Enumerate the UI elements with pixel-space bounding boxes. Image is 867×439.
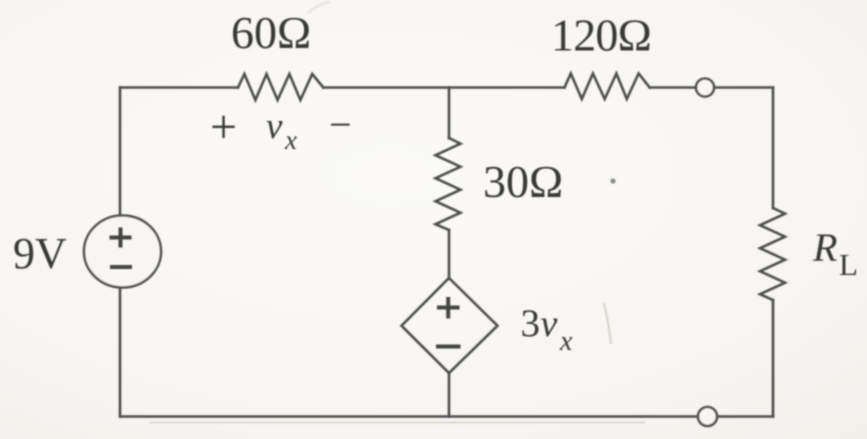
wire: 120-ohm to terminal a [650, 86, 696, 89]
scan artifact: faint wisp at top [308, 2, 330, 13]
svg-text:30Ω: 30Ω [483, 156, 563, 207]
svg-text:3: 3 [521, 302, 541, 345]
svg-text:+: + [210, 101, 237, 154]
svg-text:x: x [284, 125, 297, 155]
svg-text:v: v [541, 303, 558, 345]
scan artifact: faint streak right of 3vx label [604, 303, 611, 344]
wire: left vertical (top segment, from top-left corner to source) [119, 88, 122, 216]
svg-text:v: v [266, 106, 283, 147]
wire: middle branch from top node down to 30-ohm [448, 88, 451, 139]
minus sign inside voltage source [110, 265, 132, 269]
resistor 30 ohm (vertical zigzag) [436, 138, 461, 230]
wire: right vertical (top segment to R_L) [772, 88, 775, 209]
resistor R_L (vertical zigzag) [760, 208, 785, 300]
svg-text:9V: 9V [13, 229, 67, 278]
wire: bottom horizontal (left corner to terminal b) [120, 415, 698, 418]
terminal a (open circle, top right) [696, 79, 714, 97]
svg-text:x: x [559, 326, 573, 357]
svg-text:R: R [812, 225, 837, 270]
dependent source 3vx (diamond) [402, 278, 498, 373]
scan artifact: small dot right of 30-ohm label [610, 178, 615, 183]
wire: terminal a to top-right corner [714, 86, 773, 89]
wire: dependent source to bottom wire [448, 373, 451, 417]
terminal b (open circle, bottom right) [698, 407, 717, 426]
svg-text:60Ω: 60Ω [231, 7, 311, 58]
wire: left vertical (bottom segment, source to bottom-left corner) [119, 288, 122, 417]
scan artifact: faint echo line below bottom wire [150, 422, 645, 424]
wire: right vertical (R_L to bottom-right corner) [772, 300, 775, 417]
resistor 120 ohm (zigzag) [565, 74, 650, 100]
svg-text:120Ω: 120Ω [551, 10, 651, 61]
svg-text:L: L [839, 247, 858, 282]
wire: terminal b to bottom-right corner [717, 415, 773, 418]
wire: 30-ohm to dependent source [448, 230, 451, 278]
wire: top middle horizontal (60-ohm to 120-ohm, through node) [323, 86, 564, 89]
plus sign inside dependent source [437, 297, 460, 319]
minus sign inside dependent source [436, 345, 461, 349]
svg-text:−: − [329, 102, 352, 147]
plus sign inside voltage source [110, 228, 132, 248]
resistor 60 ohm (zigzag) [238, 74, 323, 100]
voltage source V1 9V (circle) [84, 216, 161, 288]
wire: top-left horizontal (corner to 60-ohm resistor) [120, 86, 238, 89]
